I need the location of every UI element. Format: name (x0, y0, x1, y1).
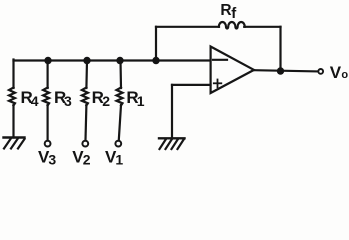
terminal V1 (115, 141, 121, 147)
svg-text:3: 3 (64, 93, 72, 109)
wire: output from op-amp apex to terminal (254, 70, 317, 71)
svg-text:R: R (220, 2, 231, 19)
node: inverting input / feedback junction (152, 57, 159, 64)
label R2 (92, 88, 111, 109)
op-amp U1 triangle (211, 47, 254, 94)
node: junction dot at R2 branch (83, 57, 90, 64)
wire: input bus from left corner to op-amp inverting input (14, 59, 211, 61)
label R4 (21, 88, 39, 109)
svg-text:2: 2 (102, 93, 110, 109)
wire: feedback top run (right of Rf) (244, 26, 280, 28)
wire: feedback top run (left of Rf) (156, 26, 219, 28)
resistor R3 (43, 88, 49, 106)
label V3 (38, 148, 56, 168)
label R1 (126, 88, 144, 109)
node: junction dot at R3 branch (44, 57, 51, 64)
wire: feedback drop to output node (279, 27, 281, 71)
label V2 (72, 148, 91, 168)
wire: R3 branch top segment (46, 61, 48, 89)
node: output / feedback junction (277, 67, 284, 74)
wire: R1 branch top segment (119, 61, 122, 89)
terminal V3 (45, 141, 51, 147)
resistor R4 (9, 88, 15, 106)
op-amp plus sign (214, 80, 222, 88)
label V1 (105, 148, 123, 168)
wire: non-inverting input drop to ground (171, 85, 173, 138)
wire: non-inverting input horizontal (172, 84, 211, 86)
wire: R3 branch bottom segment (46, 105, 48, 140)
ground (non-inverting input) (159, 138, 185, 149)
label R3 (54, 88, 72, 109)
svg-text:1: 1 (137, 93, 145, 109)
svg-text:o: o (341, 69, 348, 81)
resistor Rf (219, 22, 245, 29)
ground (below R4) (4, 138, 25, 149)
terminal V2 (82, 141, 88, 147)
svg-text:2: 2 (83, 152, 91, 168)
resistor R2 (82, 88, 88, 106)
terminal Vo (318, 69, 323, 74)
wire: feedback riser from inverting node (155, 27, 157, 61)
svg-text:1: 1 (115, 152, 123, 168)
wire: R2 branch top segment (85, 61, 88, 89)
svg-text:3: 3 (48, 152, 56, 168)
label Vo (330, 63, 349, 82)
resistor R1 (117, 88, 123, 106)
wire: R4 branch bottom segment (12, 105, 14, 138)
node: junction dot at R1 branch (116, 57, 123, 64)
svg-text:V: V (330, 63, 342, 82)
wire: R1 branch bottom segment (119, 105, 121, 140)
wire: R2 branch bottom segment (84, 105, 87, 140)
op-amp inverting input dash (213, 59, 227, 61)
wire: R4 branch top segment (12, 60, 14, 89)
label Rf (220, 2, 237, 22)
svg-text:4: 4 (31, 93, 39, 109)
